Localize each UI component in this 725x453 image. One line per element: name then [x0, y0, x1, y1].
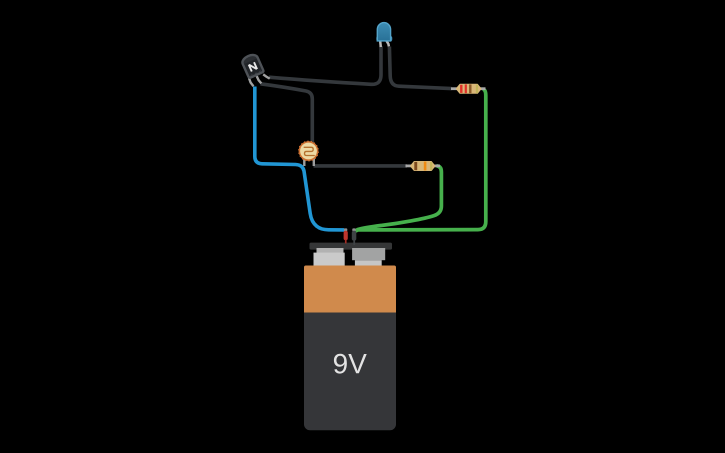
R2 left lead [406, 164, 413, 167]
R1 body [456, 84, 481, 93]
photoresistor LDR1 [298, 141, 319, 167]
Q1 emitter pin [249, 78, 254, 86]
R2 right lead [433, 164, 441, 167]
R1 band brown [469, 84, 471, 93]
Q1 collector pin [263, 74, 270, 78]
Q1 body [241, 53, 265, 79]
LDR face [300, 143, 317, 160]
wire: transistor collector to LED cathode (black) [269, 46, 381, 84]
LED anode stub [387, 41, 389, 46]
battery negative wire tip (dark) [352, 228, 357, 245]
battery orange label band [304, 266, 396, 313]
battery top cap bar [310, 243, 393, 250]
Q1 label N [249, 62, 257, 71]
wire: transistor base to LDR (black) [261, 84, 313, 143]
R2 band orange [424, 162, 427, 171]
resistor R1 (220 ohm) [451, 84, 486, 93]
LDR right leg [313, 157, 315, 166]
R2 band gold [430, 162, 432, 170]
wire: resistor R1 to battery negative (green) [355, 89, 486, 231]
battery BAT1 (9V) [304, 243, 396, 431]
R1 band red [465, 84, 467, 93]
battery body [304, 266, 396, 431]
R1 left lead [451, 87, 459, 90]
LDR scalloped rim [298, 141, 319, 162]
transistor Q1 (NPN) [241, 53, 270, 87]
battery positive terminal post [317, 248, 344, 253]
wire: resistor R2 to battery negative (green) [355, 166, 442, 231]
wire: transistor emitter to LDR left leg to battery positive (blue) [255, 87, 344, 230]
LED dome body [377, 23, 390, 41]
R2 band brown [414, 162, 417, 170]
wire: LED anode to resistor R1 (black) [389, 47, 451, 89]
LED flange [377, 36, 392, 41]
LDR serpentine track [304, 147, 314, 155]
Q1 base pin [257, 76, 262, 83]
R1 band red [460, 85, 462, 93]
R2 body [411, 162, 435, 171]
R1 band gold [476, 85, 478, 94]
battery positive wire tip (red) [344, 228, 348, 243]
R1 right lead [479, 87, 486, 90]
LED D1 (blue) [377, 23, 392, 47]
LDR left leg [303, 157, 305, 166]
resistor R2 (10k ohm) [406, 162, 441, 171]
wire: LDR right leg to resistor R2 (black) [314, 164, 408, 168]
battery 9V label [334, 354, 367, 374]
battery negative terminal post [352, 248, 385, 260]
LED cathode stub [379, 41, 382, 47]
